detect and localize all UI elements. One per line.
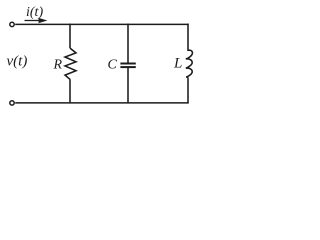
wire: top stub of R branch [69, 24, 71, 49]
svg-text:i(t): i(t) [26, 5, 43, 20]
svg-text:R: R [53, 58, 63, 73]
svg-text:C: C [108, 58, 118, 73]
capacitor C [120, 24, 135, 104]
current arrow for i(t) [25, 18, 48, 23]
capacitor top plate [120, 63, 135, 65]
terminal top-left [10, 22, 14, 26]
svg-text:v(t): v(t) [7, 54, 28, 70]
wire: bottom stub of R branch [69, 79, 71, 103]
inductor coil (3 loops) [186, 50, 193, 78]
wire bottom rail [15, 102, 189, 104]
inductor L [186, 24, 193, 104]
wire top rail [15, 23, 189, 25]
wire: right rail top segment [187, 24, 189, 52]
svg-text:L: L [173, 55, 182, 71]
terminal bottom-left [10, 101, 14, 105]
wire: right rail bottom segment [187, 78, 189, 103]
wire: bottom stub of C branch [127, 68, 129, 104]
wire: top stub of C branch [127, 24, 129, 63]
capacitor bottom plate [120, 66, 135, 68]
resistor R [65, 24, 76, 104]
resistor zigzag [65, 48, 76, 79]
